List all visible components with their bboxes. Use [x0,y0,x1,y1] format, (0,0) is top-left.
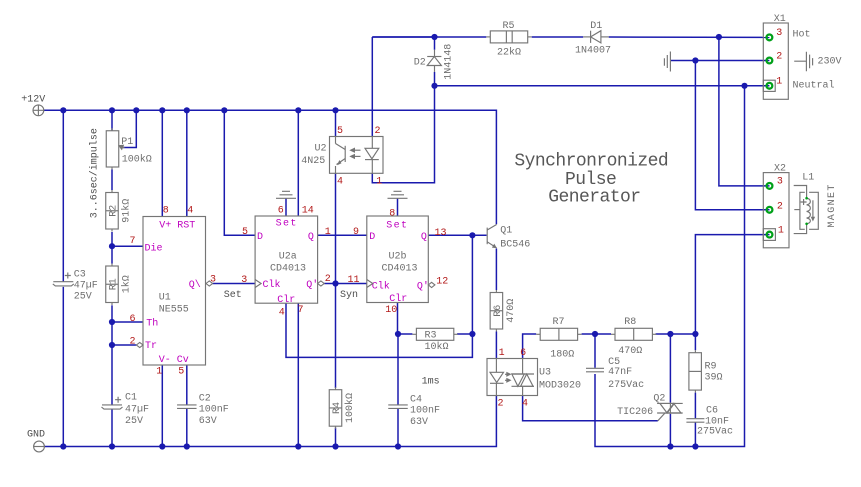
svg-text:275Vac: 275Vac [697,427,733,438]
wire U1 pin5 to C2 to GND rail [186,365,188,405]
svg-text:6: 6 [130,314,136,325]
wire R2 to R1 with pin7 tap [111,232,113,264]
svg-text:13: 13 [435,228,447,239]
svg-text:Die: Die [145,243,163,255]
svg-text:1kΩ: 1kΩ [120,275,132,293]
svg-text:D: D [257,232,263,243]
svg-text:R4: R4 [332,402,343,414]
wire U2 pin2 up to D2/R5 line [371,37,373,137]
svg-text:C1: C1 [125,393,137,404]
svg-text:X2: X2 [774,164,786,175]
wire U3 pin4 to Q2 gate [523,396,658,421]
svg-text:D2: D2 [414,58,426,69]
X2 pin 1 [767,232,773,238]
wire C5 column [594,334,596,368]
wire +12V branch to P1 top [111,110,113,130]
earth ground above U2a pin6 [276,191,296,198]
wire Q1 base node down to R3 node [471,235,473,334]
svg-text:V+ RST: V+ RST [159,221,195,232]
svg-text:R3: R3 [425,331,437,342]
wire U1 pin7 Die [112,245,143,247]
svg-text:1: 1 [499,348,505,359]
svg-text:5: 5 [242,227,248,238]
capacitor C2 100nF [177,405,197,409]
svg-text:2: 2 [498,399,504,410]
svg-text:275Vac: 275Vac [608,380,644,391]
wire +12V branch to U2a pin14 [297,110,299,216]
connector X2 body [763,173,789,248]
U2b output diamond pin12 [428,282,435,287]
svg-text:2: 2 [777,201,783,212]
flip-flop U2b CD4013 body [367,216,429,303]
svg-text:Set: Set [386,221,408,232]
svg-text:Generator: Generator [548,187,640,207]
earth ground above U2b pin8 [388,191,408,198]
svg-text:Th: Th [146,318,158,330]
svg-text:U2b: U2b [389,251,407,263]
wire U2a pin7 to GND rail [297,303,299,446]
U2 light arrows [351,149,361,151]
wire Hot node down to X2 pin3 [719,37,770,186]
svg-text:4: 4 [522,399,528,410]
resistor R9 39 with labels [689,353,702,390]
wire +12V branch to U2a D pin5 [224,110,255,235]
svg-text:1: 1 [778,226,784,237]
svg-text:1N4007: 1N4007 [575,46,611,57]
resistor R3 10k [412,333,416,335]
earth symbol near X1 pin2 [664,52,670,72]
wire +12V branch to U1 pin8 [161,110,163,216]
svg-text:12: 12 [436,277,448,288]
svg-text:Clr: Clr [389,293,407,305]
svg-text:R9: R9 [705,362,717,373]
U1 Tr diamond pin2 [136,342,143,347]
svg-text:100kΩ: 100kΩ [344,393,356,423]
svg-text:7: 7 [130,236,136,247]
junction dots R7 R8 line [592,331,598,337]
svg-text:3..6sec/impulse: 3..6sec/impulse [89,128,101,218]
svg-text:47µF: 47µF [74,281,98,292]
junction dots mains bottom rail [667,443,673,449]
triac Q2 TIC206 [669,403,671,414]
svg-text:6: 6 [278,206,284,217]
U2 LED [371,137,373,149]
svg-text:U3: U3 [539,368,551,379]
U2b clock mark [367,280,373,288]
svg-text:U2: U2 [315,144,327,155]
svg-text:3: 3 [777,177,783,188]
L1 frame bracket left [794,209,800,211]
X1 pin 1 [767,83,773,89]
connector X1 body [763,23,788,99]
svg-text:8: 8 [389,208,395,219]
svg-text:63V: 63V [410,417,428,428]
X2 pin1 marker box [763,229,775,241]
U3 LED [495,359,497,373]
capacitor C6 10nF [686,419,704,423]
optocoupler U2 4N25 body [330,137,384,174]
svg-text:22kΩ: 22kΩ [497,46,521,58]
svg-text:6: 6 [520,348,526,359]
svg-text:C3: C3 [74,269,86,280]
svg-text:R2: R2 [108,205,119,217]
svg-text:2: 2 [325,274,331,285]
svg-text:Q: Q [421,232,427,243]
X2 pin 3 [767,183,773,189]
U3 light arrows [505,373,509,375]
wire U2b pin10 Clr to R3 node [397,303,400,335]
junction dots R1 R2 column [109,243,115,249]
svg-text:9: 9 [353,227,359,238]
svg-text:100nF: 100nF [199,405,229,416]
svg-text:230V: 230V [818,57,842,68]
wire C1 bottom to GND rail [111,410,113,447]
svg-text:5: 5 [178,366,184,377]
resistor R6 470 [495,290,497,293]
junction dot 230V line [692,57,698,63]
svg-text:10kΩ: 10kΩ [425,341,449,353]
svg-text:R1: R1 [108,278,119,290]
svg-text:R5: R5 [503,21,515,32]
junction dots mains top line [431,34,437,40]
svg-text:MAGNET: MAGNET [827,183,838,227]
svg-text:Clk: Clk [372,281,390,293]
X1 pin 3 [767,35,773,41]
wire U1 pin1 to GND rail [161,365,163,447]
svg-text:4: 4 [279,308,285,319]
optotriac U3 MOD3020 body [487,359,538,396]
junction dot Syn node [332,280,338,286]
wire X1 pin2 node down to X2 pin2 [695,61,769,210]
svg-text:Set: Set [276,218,298,229]
svg-text:Clr: Clr [277,294,295,306]
wire R8 right to Q2 and R9 nodes [656,333,696,335]
svg-text:2: 2 [375,126,381,137]
svg-text:14: 14 [302,206,314,217]
resistor R4 100k [335,387,337,390]
capacitor C1 47uF polarized [102,404,122,406]
op-amp U1 NE555 body [143,217,206,366]
diode D1 1N4007 [583,36,590,38]
svg-text:2: 2 [776,52,782,63]
junction dots neutral line [431,83,437,89]
svg-text:100nF: 100nF [410,406,440,417]
wire top mains line D2 R5 D1 to X1 pin3 Hot [372,37,434,50]
GND supply symbol [34,441,45,452]
wire +12V branch to P1 wiper [123,110,136,147]
svg-text:4N25: 4N25 [301,156,325,167]
svg-text:BC546: BC546 [500,240,530,251]
svg-text:Clk: Clk [263,279,281,291]
svg-text:8: 8 [163,206,169,217]
X1 pin 2 [767,58,773,64]
flip-flop U2a CD4013 body [255,216,318,303]
svg-text:10: 10 [385,305,397,316]
wire U1 pin6 Th [112,321,143,323]
svg-text:Q\: Q\ [189,279,201,291]
wire U2b Q pin13 to Q1 base [428,234,486,236]
svg-text:X1: X1 [774,14,786,25]
svg-text:4: 4 [337,177,343,188]
junction dots +12V rail [60,107,66,113]
wire R9 C6 column [694,334,696,350]
wire Q2 column [669,334,671,403]
svg-text:3: 3 [776,28,782,39]
potentiometer P1 100k [106,131,119,167]
svg-text:1: 1 [325,227,331,238]
svg-text:R6: R6 [493,305,504,317]
svg-text:5: 5 [337,126,343,137]
junction dots R3 line [395,331,401,337]
svg-text:4: 4 [187,206,193,217]
wire R4 column Syn node to GND rail [335,284,337,389]
svg-text:TIC206: TIC206 [617,407,653,418]
svg-text:100kΩ: 100kΩ [122,154,152,166]
svg-text:63V: 63V [199,416,217,427]
wire U2 pin4 to Syn node [335,173,337,283]
wire R6 to U3 pin1 [495,332,497,359]
svg-text:C6: C6 [706,406,718,417]
svg-text:D1: D1 [590,21,602,32]
svg-text:+12V: +12V [21,95,45,106]
svg-text:1N4148: 1N4148 [443,44,454,80]
wire earth to X1 pin2 230V line [671,60,769,62]
svg-text:7: 7 [298,305,304,316]
wire R3 left lead to junction [398,333,412,335]
wire X2 pin1 left and down to R8 node [695,235,769,334]
svg-text:47nF: 47nF [608,367,632,378]
wire GND rail [45,396,497,447]
junction dot Q1 base node [469,232,475,238]
svg-text:1: 1 [156,366,162,377]
svg-text:Q1: Q1 [500,226,512,237]
svg-text:CD4013: CD4013 [382,264,418,275]
resistor R2 91k [111,190,113,193]
svg-text:D: D [369,232,375,243]
junction dots GND rail [60,443,66,449]
wire U3 pin6 up to R7 [523,334,537,359]
U2 phototransistor [335,137,337,144]
svg-text:25V: 25V [125,416,143,427]
svg-text:25V: 25V [74,292,92,303]
svg-text:2: 2 [130,337,136,348]
svg-text:P1: P1 [121,137,133,148]
wire U2b pin8 Set stub to earth [397,199,399,217]
svg-text:1ms: 1ms [422,376,440,387]
wire R7 to junction to R8 [582,333,611,335]
svg-text:47µF: 47µF [125,405,149,416]
svg-text:Q': Q' [306,279,318,291]
svg-text:U2a: U2a [279,252,297,263]
svg-text:Hot: Hot [793,30,811,41]
svg-text:R7: R7 [553,317,565,328]
svg-text:Q': Q' [417,281,429,293]
svg-text:Syn: Syn [340,290,358,301]
svg-text:180Ω: 180Ω [550,350,574,361]
capacitor C3 47uF polarized [53,281,73,283]
wire P1 to R2 [111,170,113,191]
wire +12V branch to U2 pin5 [335,110,337,136]
svg-text:C2: C2 [199,394,211,405]
wire +12V top rail [44,110,497,224]
svg-text:V- Cv: V- Cv [159,355,189,366]
wire U2a Qinv pin2 to U2b Clk net Syn [324,283,367,285]
+12V supply symbol [33,105,44,116]
svg-text:U1: U1 [159,293,171,304]
svg-text:11: 11 [348,275,360,286]
L1 core bar [812,200,814,218]
wire C3 column [62,110,64,281]
svg-text:L1: L1 [802,172,814,183]
svg-text:MOD3020: MOD3020 [539,381,581,392]
wire U2a pin4 Clr path [286,303,472,357]
L1 frame bracket right [809,192,818,229]
U2a clock mark [255,280,261,288]
wire +12V branch to U1 pin4 [186,110,188,216]
svg-text:C4: C4 [410,395,422,406]
svg-text:39Ω: 39Ω [705,373,723,384]
svg-text:470Ω: 470Ω [618,346,642,357]
svg-text:Neutral: Neutral [793,80,835,92]
wire R1 bottom to C1 and Th/Tr taps [111,305,113,405]
wire neutral node down right side to bottom rail [595,86,745,447]
U3 triac symbol [522,359,524,375]
svg-text:3: 3 [241,275,247,286]
wire neutral line to X1 pin1 [435,85,770,87]
svg-text:NE555: NE555 [159,305,189,316]
U2a output diamond pin2 [318,281,325,286]
wire U2a Q pin1 to U2b D pin9 [318,234,367,236]
X1 pin1 marker box [763,80,775,91]
capacitor C4 100nF [388,405,408,409]
svg-text:Q: Q [308,232,314,243]
230V mains symbol at X1 [794,52,812,72]
capacitor C5 47nF [586,368,604,372]
svg-text:Tr: Tr [145,341,157,352]
svg-text:1: 1 [376,177,382,188]
diode D2 1N4148 [434,50,436,57]
resistor R7 180 [536,333,540,335]
svg-text:GND: GND [27,430,45,441]
wire Q1 emitter to R6 [495,249,497,291]
wire R3 right lead to junction [457,333,472,335]
wire C4 column junction to GND rail [397,334,399,405]
svg-text:470Ω: 470Ω [506,299,517,323]
svg-text:Synchronronized: Synchronronized [514,152,668,172]
wire U2 pin1 loop to neutral [372,86,434,183]
wire U2a pin6 Set stub to earth [285,199,287,217]
X2 pin 2 [767,207,773,213]
svg-text:Q2: Q2 [653,394,665,405]
resistor R5 22k [486,36,490,38]
wire U1 Q out to U2a Clk net Set [213,283,256,285]
svg-text:1: 1 [776,77,782,88]
transistor Q1 BC546 [486,228,488,245]
U1 output diamond pin3 [206,281,213,286]
resistor R1 1k [111,264,113,267]
wire R5 D1 segments [372,36,434,38]
svg-text:91kΩ: 91kΩ [120,199,132,223]
svg-text:CD4013: CD4013 [270,264,306,275]
svg-text:Set: Set [224,290,242,301]
wire U1 pin2 Tr [112,344,136,346]
resistor R8 470 [611,333,615,335]
svg-text:R8: R8 [624,317,636,328]
